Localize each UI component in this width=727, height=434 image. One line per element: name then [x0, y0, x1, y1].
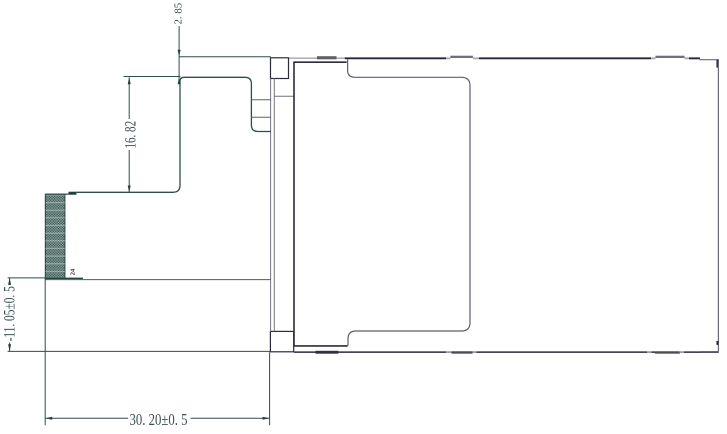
svg-text:16. 82: 16. 82: [122, 121, 139, 149]
svg-text:-11. 05±0. 5: -11. 05±0. 5: [2, 286, 19, 341]
svg-text:24: 24: [69, 268, 76, 275]
svg-text:30. 20±0. 5: 30. 20±0. 5: [130, 410, 188, 429]
svg-text:2. 85: 2. 85: [174, 3, 185, 25]
